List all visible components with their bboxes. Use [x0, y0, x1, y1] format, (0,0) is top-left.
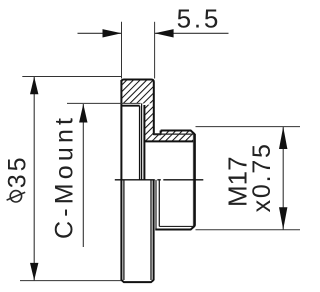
dimension 5.5: extension lines [121, 22, 123, 79]
flange left face (continuous full height) [120, 80, 122, 280]
M17 dimension line + arrows [282, 127, 284, 230]
flange right face (bottom half) [153, 180, 155, 281]
flange block outline (top section half) [121, 80, 160, 135]
dimension 5.5: dim line right segment + arrow [155, 32, 229, 34]
hatching: M17 barrel wall [154, 131, 194, 142]
dia35 dimension line [33, 77, 35, 281]
flange right chamfer line [150, 180, 152, 280]
end face (right) [194, 134, 196, 226]
svg-text:35: 35 [4, 154, 32, 188]
dimension 5.5: dim line left segment + arrow [78, 32, 122, 34]
M17 bottom root line (thin) [159, 225, 193, 227]
M17 dimension: extension lines [196, 126, 301, 128]
dia35 top arrow [30, 77, 38, 95]
C-bore end wall verticals [139, 106, 141, 180]
svg-text:5.5: 5.5 [177, 3, 222, 33]
flange bottom edge with corner chamfers [121, 280, 153, 282]
centerline (dash-dot axis) [115, 179, 205, 181]
M17 top crest (OD) line + right chamfer [161, 131, 195, 135]
C-bore thread crest line (thick) [121, 105, 139, 107]
central bore line (thick) [144, 140, 195, 142]
svg-text:x0.75: x0.75 [248, 142, 276, 212]
dia35 bottom arrow [30, 263, 38, 281]
dia35 extension lines [22, 76, 121, 78]
C-bore thread root line (thin) + C-Mount extension line [67, 102, 141, 104]
C-Mount dimension line + arrow [82, 104, 84, 247]
text dia35 (rotated) : custom diameter glyph + 35 [4, 154, 32, 202]
end face inner thin line [192, 134, 194, 226]
flange left chamfer line [123, 180, 125, 280]
undercut groove edge lines (bottom half) [155, 180, 157, 230]
hatching: flange block section [121, 80, 153, 104]
M17 top root line (thin), continues left into undercut [154, 133, 194, 135]
M17 bottom crest (OD) + right chamfer [155, 226, 195, 230]
hatching: wall strip between C-bore end and flange right face [144, 105, 153, 142]
